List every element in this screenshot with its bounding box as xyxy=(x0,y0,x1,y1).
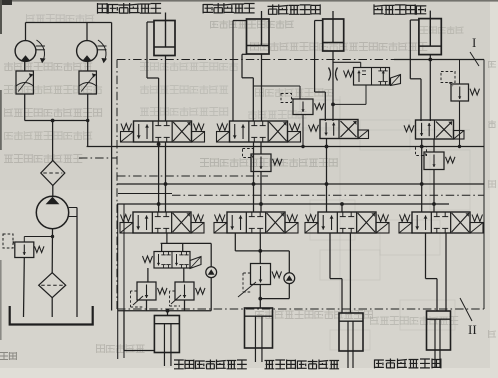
svg-text:I: I xyxy=(472,35,476,50)
svg-text:II: II xyxy=(468,322,477,337)
